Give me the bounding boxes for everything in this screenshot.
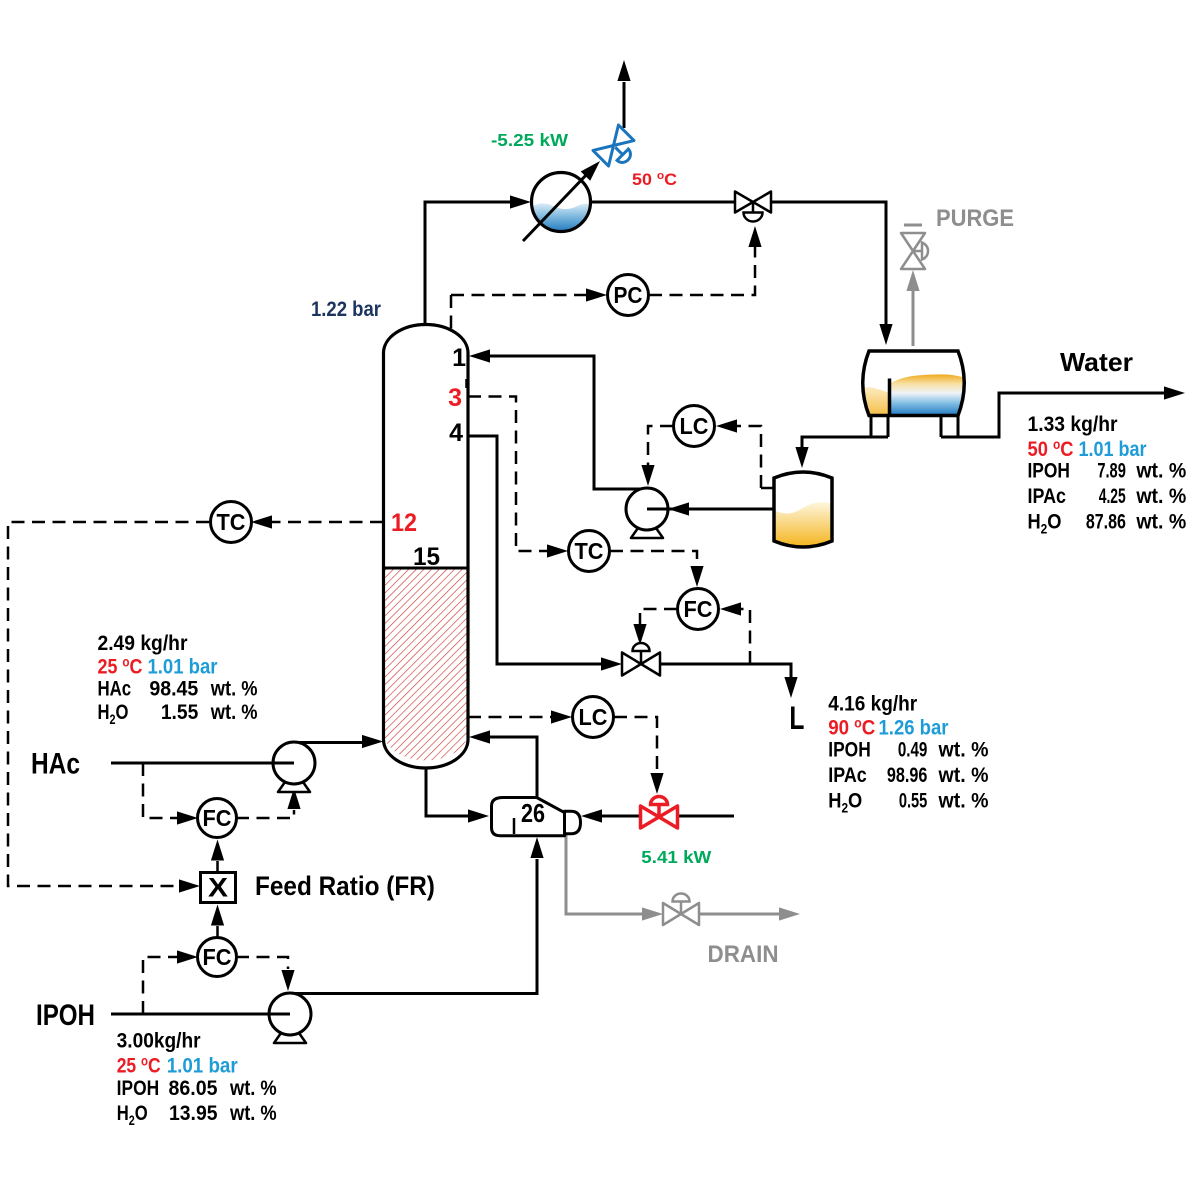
svg-text:wt. %: wt. % <box>1135 459 1186 483</box>
svg-text:4: 4 <box>449 419 463 447</box>
svg-text:wt. %: wt. % <box>938 737 989 761</box>
svg-text:25 oC: 25 oC <box>98 653 143 678</box>
svg-text:5.41 kW: 5.41 kW <box>641 848 712 867</box>
svg-text:HAc: HAc <box>31 746 80 780</box>
svg-text:3.00kg/hr: 3.00kg/hr <box>117 1030 201 1053</box>
svg-text:12: 12 <box>391 509 417 537</box>
svg-text:wt. %: wt. % <box>1135 510 1186 534</box>
svg-text:LC: LC <box>579 704 608 730</box>
svg-text:X: X <box>208 873 228 903</box>
svg-text:1.55: 1.55 <box>161 701 198 724</box>
svg-text:98.96: 98.96 <box>887 764 927 788</box>
svg-text:wt. %: wt. % <box>1135 484 1186 508</box>
svg-text:FC: FC <box>203 944 232 970</box>
svg-text:7.89: 7.89 <box>1097 458 1125 483</box>
svg-text:50 oC: 50 oC <box>632 170 677 189</box>
svg-text:25 oC: 25 oC <box>117 1052 161 1078</box>
svg-text:FC: FC <box>203 805 232 831</box>
svg-text:IPOH: IPOH <box>1027 459 1069 483</box>
svg-text:Feed Ratio (FR): Feed Ratio (FR) <box>255 872 435 901</box>
svg-text:wt. %: wt. % <box>210 677 258 701</box>
svg-text:PC: PC <box>613 282 642 308</box>
svg-text:L: L <box>789 701 804 737</box>
svg-text:TC: TC <box>575 538 604 564</box>
svg-text:1.01 bar: 1.01 bar <box>167 1054 238 1077</box>
svg-text:26: 26 <box>521 799 545 828</box>
svg-text:wt. %: wt. % <box>229 1102 277 1126</box>
svg-text:87.86: 87.86 <box>1086 510 1126 534</box>
svg-text:TC: TC <box>217 509 246 535</box>
svg-text:wt. %: wt. % <box>210 701 258 725</box>
svg-text:IPOH: IPOH <box>117 1076 159 1100</box>
svg-text:IPAc: IPAc <box>1028 485 1066 509</box>
svg-text:wt. %: wt. % <box>938 788 989 812</box>
svg-text:PURGE: PURGE <box>936 204 1014 231</box>
svg-text:HAc: HAc <box>97 678 131 701</box>
svg-text:1: 1 <box>452 344 466 372</box>
svg-text:IPOH: IPOH <box>828 738 870 762</box>
svg-text:98.45: 98.45 <box>149 677 198 701</box>
svg-text:1.22 bar: 1.22 bar <box>311 298 381 321</box>
svg-text:86.05: 86.05 <box>169 1076 218 1100</box>
svg-text:IPOH: IPOH <box>36 997 95 1031</box>
svg-text:wt. %: wt. % <box>938 763 989 787</box>
svg-text:15: 15 <box>413 544 440 571</box>
svg-text:13.95: 13.95 <box>169 1101 217 1125</box>
svg-text:50 oC: 50 oC <box>1028 436 1074 461</box>
svg-text:wt. %: wt. % <box>229 1077 277 1101</box>
svg-text:LC: LC <box>680 413 709 439</box>
svg-text:1.33 kg/hr: 1.33 kg/hr <box>1028 413 1118 436</box>
svg-text:4.25: 4.25 <box>1099 484 1126 508</box>
svg-text:FC: FC <box>684 596 713 622</box>
svg-text:IPAc: IPAc <box>828 763 866 787</box>
svg-text:2.49 kg/hr: 2.49 kg/hr <box>98 632 188 655</box>
svg-text:4.16 kg/hr: 4.16 kg/hr <box>828 693 917 716</box>
svg-text:DRAIN: DRAIN <box>708 940 779 967</box>
svg-text:90 oC: 90 oC <box>828 715 875 740</box>
svg-text:3: 3 <box>448 384 462 412</box>
svg-text:Water: Water <box>1060 347 1133 377</box>
svg-text:-5.25 kW: -5.25 kW <box>491 130 569 150</box>
svg-text:0.55: 0.55 <box>899 787 927 812</box>
svg-text:1.01 bar: 1.01 bar <box>148 655 218 679</box>
svg-text:0.49: 0.49 <box>898 737 928 761</box>
